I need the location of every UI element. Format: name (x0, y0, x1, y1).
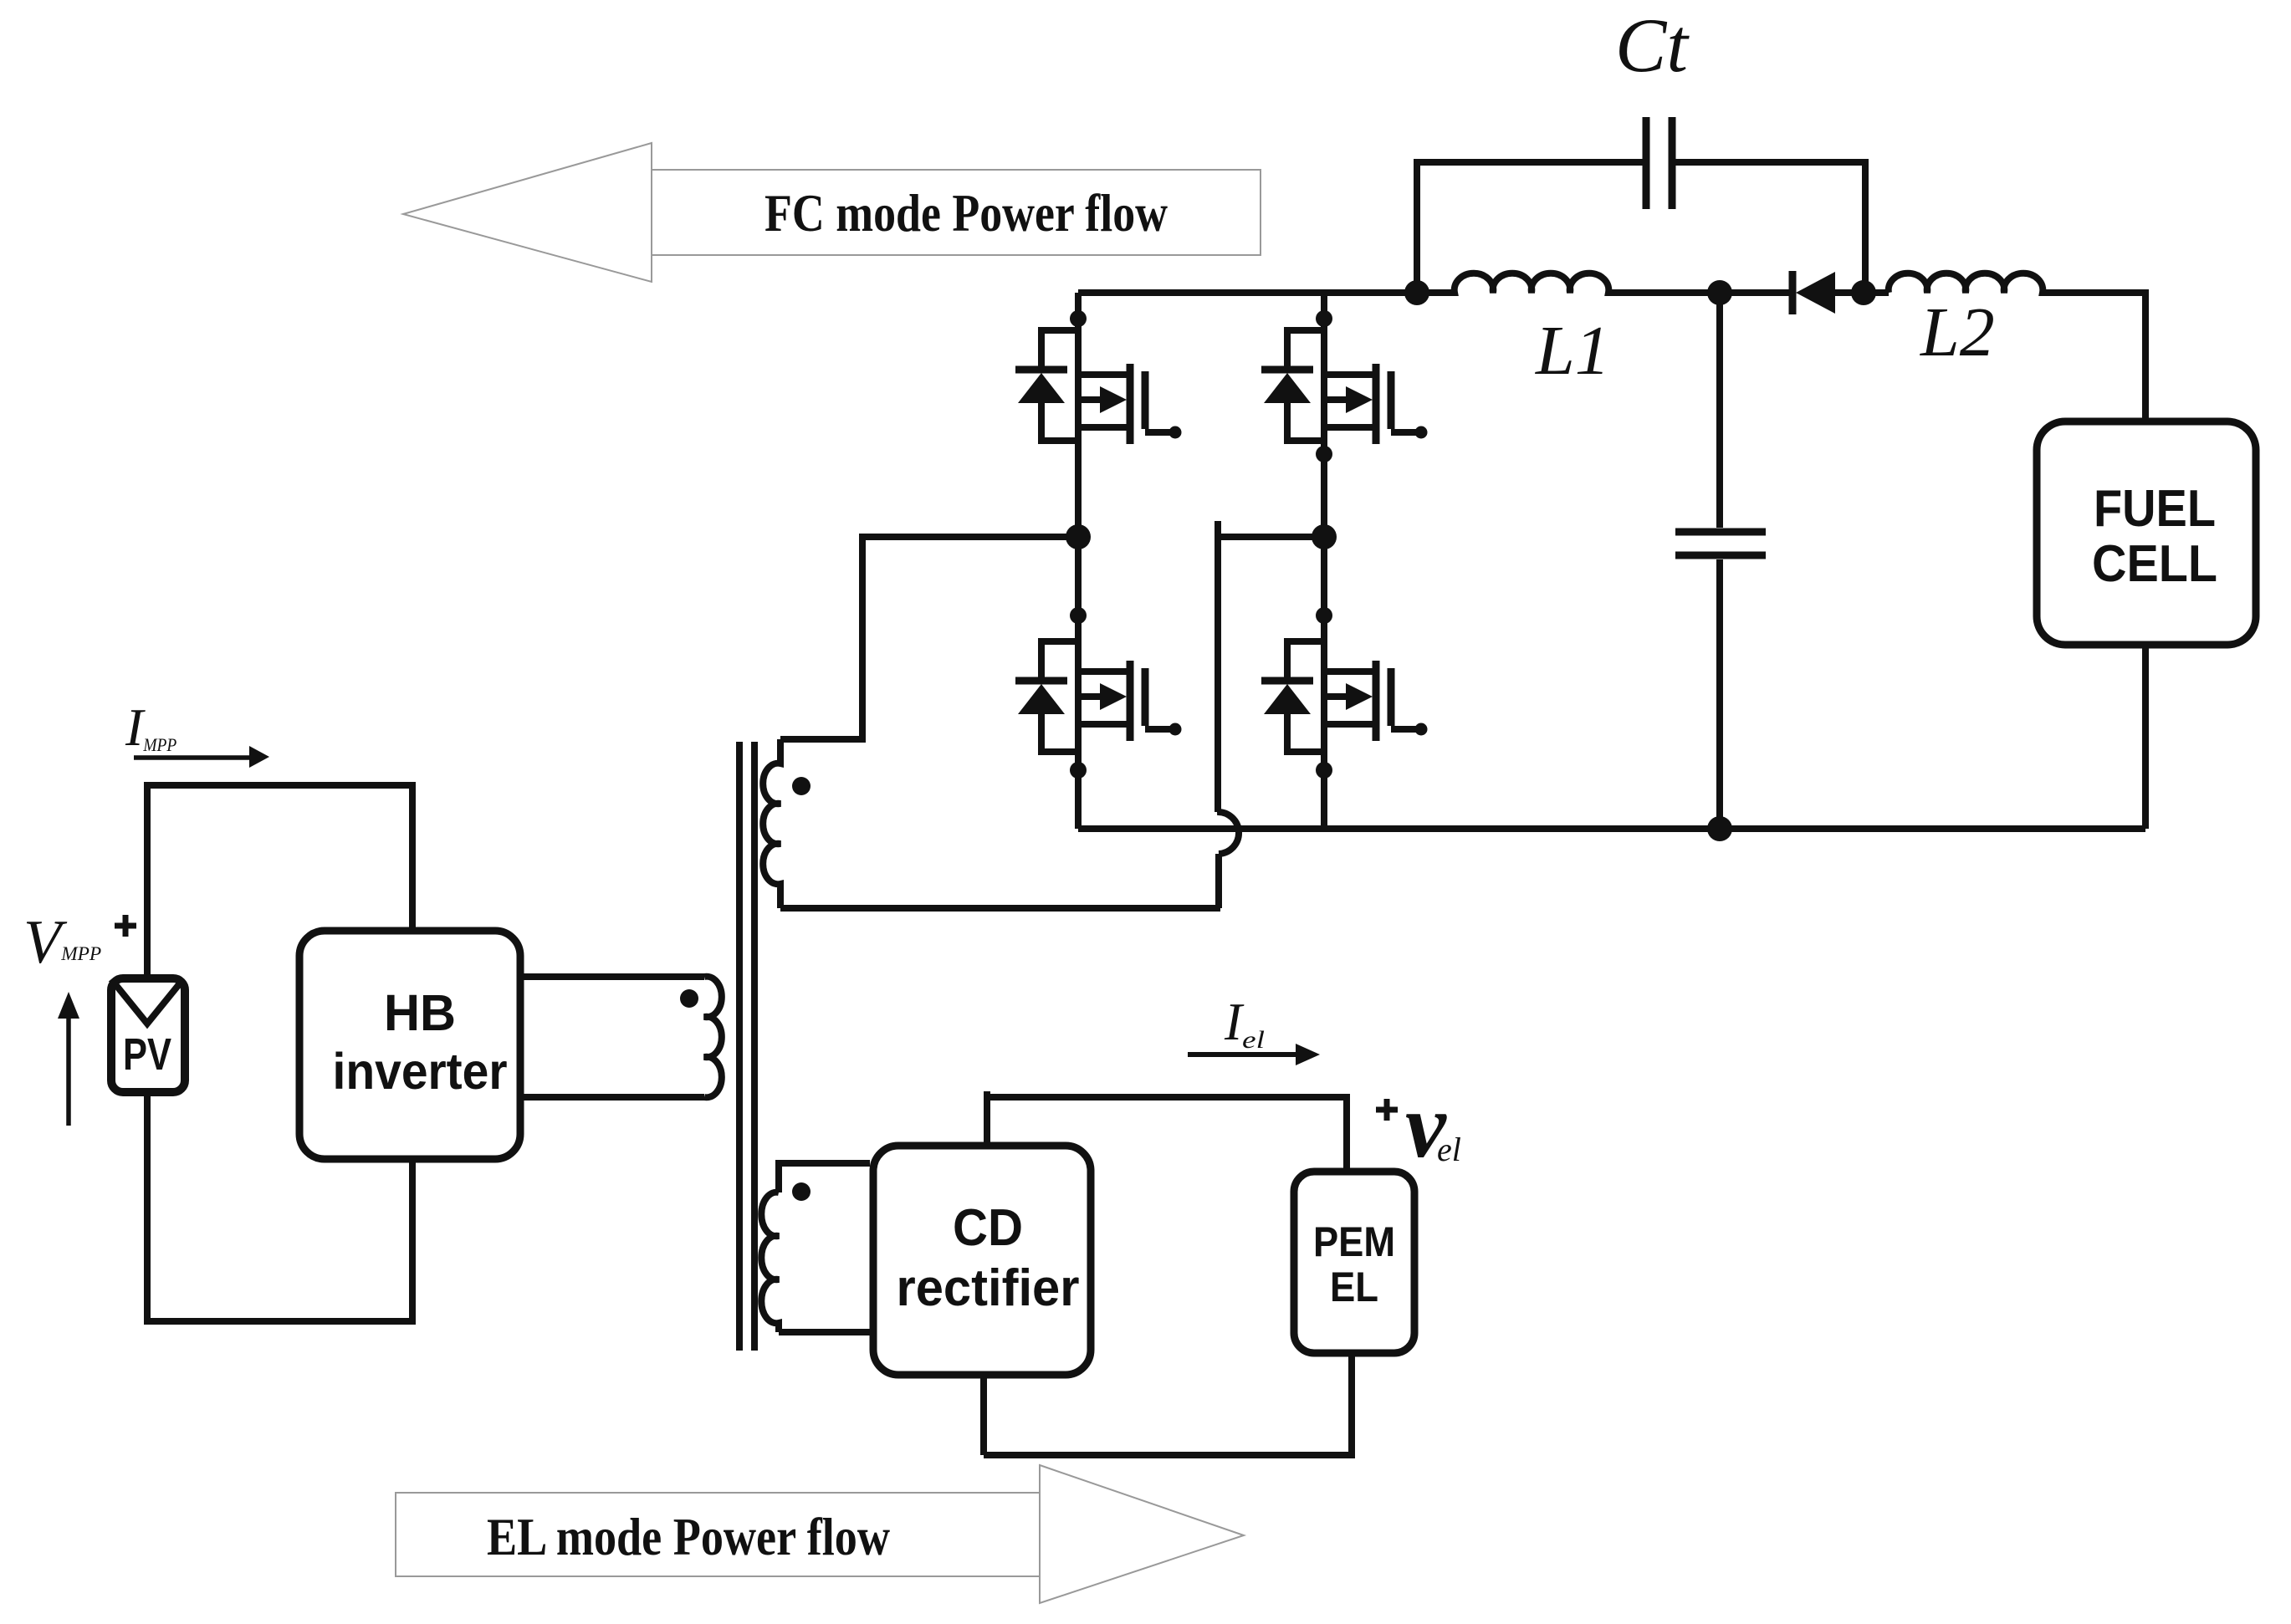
svg-text:L1: L1 (1535, 312, 1610, 390)
svg-text:EL mode Power flow: EL mode Power flow (487, 1507, 890, 1566)
winding W2 coil (761, 1192, 779, 1332)
svg-text:PV: PV (123, 1029, 171, 1080)
svg-text:HB: HB (384, 984, 456, 1041)
node dot leg1 above Q3 (1070, 607, 1087, 624)
wire Ct right riser (1675, 162, 1865, 293)
winding W0 primary bottom (524, 1094, 704, 1101)
inductor L1 (1417, 273, 1792, 293)
node dot leg1 midpoint (1066, 524, 1091, 549)
transformer core (739, 742, 754, 1351)
node dot B L1 / C2 (1707, 280, 1732, 305)
svg-text:L2: L2 (1920, 294, 1995, 371)
svg-text:CD: CD (953, 1199, 1023, 1257)
wire leg1 midpoint to winding W1 top (780, 537, 1078, 739)
wire Ct left riser (1417, 162, 1643, 293)
transistor Q4 (1324, 661, 1428, 741)
wire CD to PEM top (987, 1097, 1347, 1168)
wire crossover hop (1217, 812, 1239, 854)
svg-text:EL: EL (1330, 1264, 1378, 1310)
node dot leg2 midpoint (1312, 524, 1337, 549)
plus sign v_el (1376, 1099, 1398, 1121)
wire bridge top rail (1078, 289, 1417, 296)
winding W2 top (779, 1163, 870, 1192)
svg-text:VMPP: VMPP (23, 908, 101, 977)
PEM EL block (1294, 1172, 1414, 1353)
diode D1 (1789, 271, 1797, 314)
HB inverter block (299, 931, 520, 1159)
wire leg2 midpoint to crossover (1218, 521, 1324, 812)
polarity dot winding W1 (792, 777, 811, 795)
svg-text:inverter: inverter (333, 1043, 508, 1100)
wire bottom rail (1078, 825, 2145, 832)
wire PV bottom (147, 1096, 412, 1321)
capacitor C2 bottom lead (1716, 559, 1723, 829)
wire winding W1 bottom (780, 905, 1220, 912)
inductor L2 (1889, 273, 2145, 419)
svg-text:Iel: Iel (1224, 993, 1265, 1054)
node dot leg2 below Q4 (1316, 762, 1332, 779)
node dot leg2 above Q4 (1316, 607, 1332, 624)
EL mode power flow arrow (396, 1465, 1244, 1603)
node dot A top rail / Ct (1404, 280, 1429, 305)
capacitor C2 top lead (1716, 293, 1723, 528)
svg-text:IMPP: IMPP (125, 697, 176, 757)
polarity dot winding W2 (792, 1182, 811, 1201)
wire CD rectifier top stub (984, 1091, 990, 1142)
transistor Q3 (1078, 661, 1182, 741)
node dot C diode / Ct / L2 (1851, 280, 1876, 305)
svg-text:Ct: Ct (1615, 3, 1690, 88)
wire bridge leg 1 (1075, 293, 1082, 829)
transistor Q1 (1078, 364, 1182, 444)
svg-text:CELL: CELL (2092, 535, 2217, 593)
winding W0 primary coil (704, 977, 722, 1098)
capacitor C2 (1675, 532, 1766, 555)
wire crossover lower riser (1215, 854, 1222, 908)
node dot leg1 below Q3 (1070, 762, 1087, 779)
arrow I_MPP (134, 755, 249, 760)
capacitor Ct (1646, 117, 1672, 209)
arrow I_el (1188, 1052, 1296, 1057)
transistor Q2 (1324, 364, 1428, 444)
node dot C2 bottom rail (1707, 816, 1732, 841)
winding W1 coil (763, 739, 780, 908)
wire CD to PEM bottom (984, 1356, 1352, 1455)
wire fuel cell bottom riser (2142, 648, 2149, 829)
node dot leg2 below Q2 (1316, 446, 1332, 462)
PV cell block (111, 978, 185, 1092)
polarity dot winding W0 (680, 989, 698, 1008)
FC mode power flow arrow (403, 143, 1261, 282)
svg-text:FUEL: FUEL (2094, 480, 2216, 538)
plus sign PV (115, 915, 136, 937)
wire bridge leg 2 (1321, 293, 1327, 829)
CD rectifier block (873, 1146, 1091, 1375)
winding W0 primary top (524, 973, 704, 980)
node dot leg1 drain (1070, 310, 1087, 327)
node dot leg2 drain (1316, 310, 1332, 327)
wire CD rectifier bottom stub (980, 1378, 987, 1455)
svg-text:rectifier: rectifier (897, 1259, 1080, 1317)
FUEL CELL block (2037, 421, 2256, 645)
svg-text:el: el (1437, 1131, 1461, 1168)
winding W2 bottom (779, 1329, 870, 1335)
wire PV top (147, 785, 412, 974)
svg-text:PEM: PEM (1313, 1218, 1395, 1265)
arrow V_MPP (66, 1017, 71, 1126)
svg-text:FC mode Power flow: FC mode Power flow (765, 183, 1168, 243)
